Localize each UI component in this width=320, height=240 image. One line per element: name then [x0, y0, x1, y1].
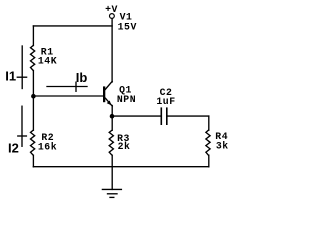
- transistor Q1 emitter arrow: [107, 101, 112, 106]
- ground: [111, 167, 113, 184]
- resistor R4: [206, 130, 210, 155]
- wire R4 bottom lead: [208, 155, 210, 167]
- wire R3 bottom lead: [111, 155, 113, 167]
- transistor Q1 collector lead: [105, 81, 112, 89]
- wire supply vertical: [111, 19, 113, 83]
- wire R3 top lead: [111, 116, 113, 130]
- svg-text:1uF: 1uF: [156, 96, 175, 107]
- svg-text:14K: 14K: [38, 55, 57, 66]
- wire bottom rail: [33, 166, 208, 168]
- resistor R3: [109, 130, 113, 155]
- wire R4 top lead: [208, 116, 210, 130]
- capacitor C2 plates: [160, 108, 162, 124]
- power terminal V1: [110, 14, 115, 19]
- resistor R1: [31, 46, 35, 71]
- svg-text:Ib: Ib: [76, 70, 88, 85]
- svg-text:2k: 2k: [118, 141, 131, 152]
- probe I1: [21, 46, 23, 89]
- wire C2 left: [112, 115, 160, 117]
- wire left vertical upper: [32, 26, 34, 46]
- svg-text:NPN: NPN: [117, 94, 136, 105]
- transistor Q1 emitter lead: [105, 98, 112, 106]
- svg-text:I2: I2: [8, 140, 19, 155]
- wire left vertical middle: [32, 71, 34, 131]
- svg-text:+V: +V: [105, 4, 118, 15]
- svg-text:3k: 3k: [216, 141, 229, 152]
- node emitter junction: [110, 114, 115, 119]
- svg-text:15V: 15V: [118, 21, 137, 32]
- wire base: [33, 95, 103, 97]
- probe I2: [21, 106, 23, 146]
- probe Ib: [47, 86, 87, 88]
- wire top rail: [33, 25, 112, 27]
- wire left vertical lower: [32, 155, 34, 167]
- wire emitter vertical: [111, 106, 113, 117]
- svg-text:16k: 16k: [38, 141, 57, 152]
- wire C2 right: [168, 115, 209, 117]
- resistor R2: [31, 130, 35, 155]
- svg-text:I1: I1: [5, 69, 16, 84]
- transistor Q1 base bar: [103, 86, 105, 102]
- node base junction: [31, 94, 36, 99]
